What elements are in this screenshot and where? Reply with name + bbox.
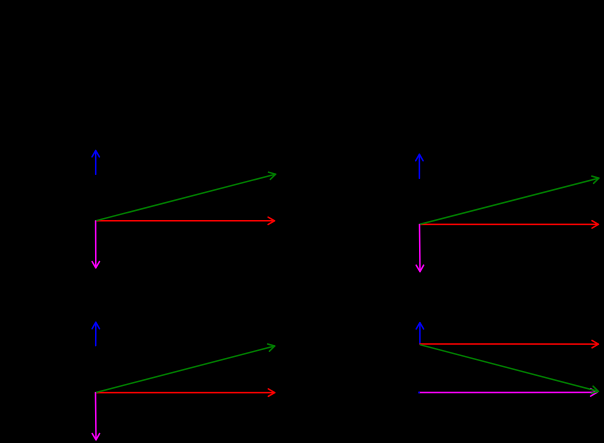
group4 blue dot marker at magenta tail <box>418 392 420 394</box>
group2 red x-component arrow (right) <box>420 221 599 228</box>
group3 green vector arrow (up-right) <box>96 344 275 393</box>
group3 blue y-component arrow (detached, pointing up) <box>92 322 99 345</box>
group1 red x-component arrow (right) <box>96 217 275 224</box>
group3 red x-component arrow (right) <box>96 389 275 396</box>
group4 magenta horizontal arrow (right) <box>419 389 597 396</box>
group2 green vector arrow (up-right) <box>420 176 599 224</box>
group2 magenta arrow (down) <box>416 225 423 272</box>
group2 blue y-component arrow (detached, pointing up) <box>416 154 423 178</box>
group1 green vector arrow (up-right) <box>96 172 276 221</box>
group4 red arrow (right, elevated) <box>420 340 598 347</box>
group4 green vector arrow (down-right) <box>420 345 598 394</box>
group3 magenta arrow (down) <box>92 393 99 440</box>
group1 blue y-component arrow (detached, pointing up) <box>92 151 99 175</box>
group1 magenta arrow (down) <box>92 221 99 268</box>
group4 blue arrow at elevated origin (pointing up) <box>416 323 423 344</box>
